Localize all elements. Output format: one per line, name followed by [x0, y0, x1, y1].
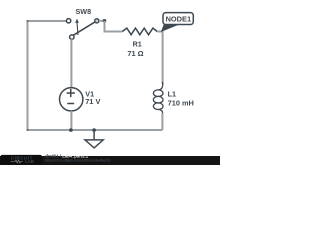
V1 minus sign: [67, 103, 74, 105]
switch SW8 right terminal (gray): [95, 19, 99, 23]
svg-text:71 Ω: 71 Ω: [127, 49, 143, 58]
node corner top-left: [27, 20, 29, 22]
inductor L1: [158, 82, 163, 90]
wire bottom rail: [28, 129, 163, 131]
svg-text:NODE1: NODE1: [166, 15, 191, 24]
voltage source V1: [59, 88, 82, 111]
svg-text:LAB: LAB: [25, 159, 34, 164]
svg-text:http://circuitlab.com/c/ben24u: http://circuitlab.com/c/ben24u6au2e: [45, 157, 112, 162]
svg-text:L1: L1: [168, 90, 176, 99]
watermark logo zigzag: [11, 160, 23, 163]
wire resistor to node corner: [157, 32, 162, 85]
switch SW8 left terminal: [66, 19, 70, 23]
junction dot V1 bottom: [69, 128, 73, 132]
node NODE1 callout tail: [161, 24, 179, 32]
wire junction down to resistor level: [105, 21, 123, 32]
ground: [93, 130, 95, 140]
V1 plus sign: [67, 89, 75, 97]
node NODE1 box: [163, 13, 193, 25]
watermark logo box: [1, 155, 43, 165]
switch SW8 actuator arrow: [77, 23, 78, 36]
junction dot A: [103, 19, 107, 23]
resistor R1: [122, 28, 157, 35]
wire top rail: [28, 20, 67, 22]
switch SW8 blade: [73, 22, 95, 35]
junction dot ground: [92, 128, 96, 132]
switch SW8 bottom terminal: [70, 35, 74, 39]
node corner bottom-left: [27, 129, 29, 131]
wire left rail: [27, 21, 29, 130]
watermark bar: [0, 156, 220, 165]
svg-text:R1: R1: [133, 40, 142, 49]
svg-text:SW8: SW8: [76, 7, 92, 16]
svg-text:71 V: 71 V: [85, 97, 100, 106]
wire switch to junction: [99, 20, 105, 22]
svg-text:710 mH: 710 mH: [168, 98, 194, 107]
wire inductor to bottom rail: [161, 113, 163, 130]
wire V1 to bottom rail: [70, 111, 72, 130]
wire switch to V1: [70, 39, 72, 87]
